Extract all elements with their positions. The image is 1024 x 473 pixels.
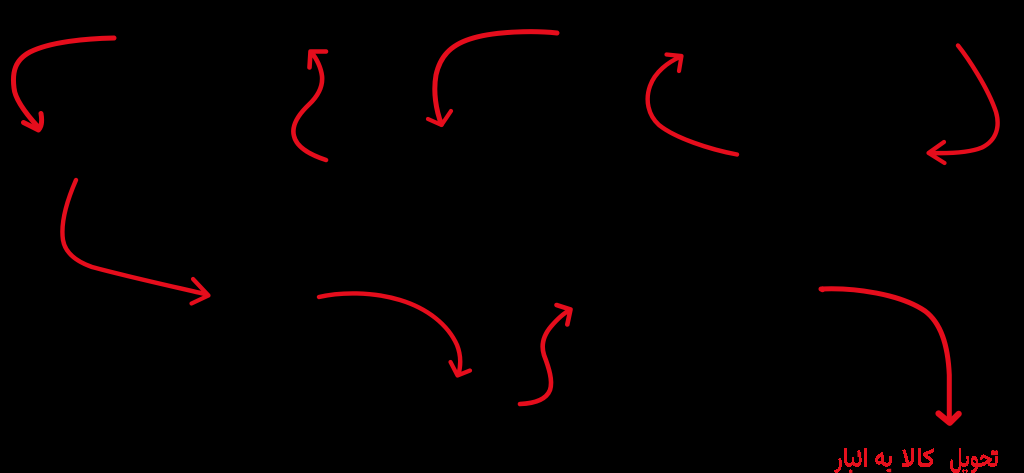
arrow 2 (S-curve pointing up, left-middle) (293, 52, 326, 161)
arrow 1 (top-left, curving down) (13, 38, 114, 130)
arrow 8 (S-curve pointing up-right, bottom-middle) (520, 305, 571, 404)
arrow 4 (hook pointing up-right) (648, 55, 737, 155)
arrow 9 (bottom-right big arc, pointing down) (820, 286, 959, 423)
arrow 3 (top-middle arc, pointing down) (428, 32, 557, 125)
arrow 7 (bottom-middle arc, pointing down) (319, 293, 470, 375)
label: تحویل کالا به انبار (red Persian text, bottom-right, traced as vector path) (834, 448, 998, 473)
arrow 6 (left, arc pointing right) (62, 180, 208, 304)
arrow 5 (top-right, pointing left) (929, 46, 998, 164)
